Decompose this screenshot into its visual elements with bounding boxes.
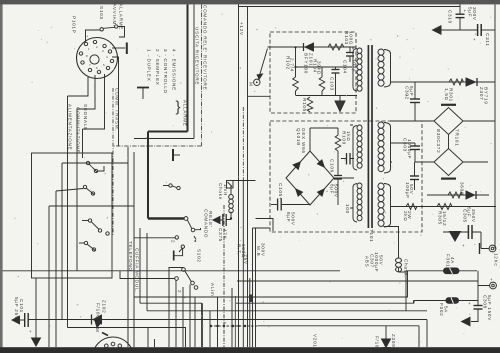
ground symbol bottom left (32, 338, 41, 346)
lower block inner top (258, 325, 419, 327)
capacitor C104 plate a (346, 52, 354, 54)
choke chassis feed from transformer (384, 227, 399, 259)
S102 jack arm (179, 249, 182, 252)
comb wire x183 (182, 287, 184, 347)
socket P101 pin 1 (84, 42, 87, 45)
diode Z308 cathode bar (475, 191, 477, 199)
svg-text:C106: C106 (330, 159, 335, 173)
thick alarm wire vertical top (187, 4, 189, 131)
svg-text:50V: 50V (379, 255, 384, 266)
junction dots row (210, 325, 246, 327)
S102 jack bar (173, 251, 175, 261)
nested wire a vertical (139, 228, 141, 303)
svg-text:2W: 2W (407, 211, 412, 219)
svg-text:+: + (464, 9, 467, 14)
ground arrow top right (433, 26, 442, 34)
bottom margin bar (0, 347, 500, 353)
antenna arrowhead (257, 74, 262, 79)
wire to terminal 1 (481, 232, 489, 249)
bus y303 right segment (236, 301, 414, 304)
top right rail vertical (459, 4, 461, 14)
svg-text:7: 7 (89, 63, 91, 67)
relay contact group 4 circle a (84, 241, 87, 244)
plus bar above TR101 (441, 104, 456, 106)
marker N above socket (95, 321, 102, 328)
socket P101 pin 10 (79, 52, 82, 55)
antenna bar T1 (126, 43, 128, 55)
wire left bus x56 (55, 191, 57, 347)
R109 stub (337, 128, 339, 135)
ground arrow in block stem (339, 96, 341, 102)
transformer secondary sec1 edge (384, 50, 391, 88)
choke bottom lead (399, 268, 407, 272)
capacitor C101 plate a (24, 313, 26, 327)
relay arm tick (194, 236, 196, 240)
S102 jack wire (175, 248, 183, 255)
svg-text:1: 1 (183, 296, 188, 299)
branch x195 down (194, 297, 196, 347)
transformer secondary winding section1 (378, 49, 384, 86)
capacitor C103 plate b (332, 72, 340, 74)
branch x217 down (217, 297, 219, 347)
relay contact group 1 stub b (98, 166, 104, 171)
wire left bus x49 (48, 206, 50, 347)
hv wire y82 (390, 81, 495, 83)
diode Z308 body (466, 191, 475, 199)
left margin bar (0, 0, 3, 353)
capacitor C311 plate a (477, 24, 479, 36)
diode Z102 body (93, 315, 102, 324)
C103 wires (335, 67, 337, 96)
terminal 1 inner (491, 247, 494, 250)
thin line2 corner to telefono box (134, 138, 194, 140)
junction dot choke (230, 217, 232, 219)
transformer secondary sec2 edge (384, 123, 391, 174)
switch S103 contact a (100, 28, 103, 31)
long bus y271 (3, 270, 340, 272)
wire alimentazione vertical (67, 96, 69, 328)
C310 wire down (459, 18, 461, 30)
svg-text:5µF: 5µF (409, 86, 414, 96)
svg-text:15/1Z: 15/1Z (442, 211, 447, 227)
bridge diode UR (317, 160, 324, 167)
choke wire bottom (230, 212, 232, 219)
switch alim feed wire (120, 271, 175, 279)
long wire y320 from C101 to lower box (28, 319, 427, 321)
svg-text:COMM. TRASM.: COMM. TRASM. (115, 88, 120, 131)
diode Z307 cathode bar (476, 78, 478, 86)
svg-text:2: 2 (171, 240, 176, 243)
fuse F302 body (446, 298, 459, 304)
socket V202 pin a (100, 349, 104, 353)
C308 wire to ground (471, 309, 478, 322)
svg-text:BFY100: BFY100 (304, 53, 309, 74)
antenna lead diagonal (259, 49, 268, 79)
svg-text:COMMUTAZIONE: COMMUTAZIONE (76, 107, 81, 153)
bus y121 left (390, 120, 434, 122)
wire fuse F302 feed (414, 301, 478, 304)
rectifier TR102 diamond (434, 149, 463, 176)
bus y311 (147, 310, 427, 312)
capacitor plate b S102 (225, 214, 227, 226)
svg-text:+: + (490, 277, 493, 282)
svg-text:2: 2 (96, 45, 98, 49)
svg-text:COMANDO RELE’ RICEVITORE: COMANDO RELE’ RICEVITORE (202, 5, 207, 90)
socket V202 pin c (111, 342, 115, 346)
transformer secondary sec3 edge (384, 184, 391, 228)
svg-text:R105: R105 (302, 98, 307, 112)
wire F302 to terminal (477, 286, 479, 301)
relay contact box (32, 153, 113, 278)
transformer primary winding section1 (357, 48, 362, 91)
C304 wires (414, 162, 416, 190)
socket lead stub b (154, 339, 156, 347)
top margin bar (0, 0, 500, 4)
bridge Q101 diamond (286, 151, 334, 205)
svg-text:-: - (469, 312, 471, 317)
wire group 2 feed (56, 189, 83, 192)
svg-text:6: 6 (96, 66, 98, 70)
center bus x243 lower (242, 180, 244, 347)
right edge bus x495 (494, 4, 496, 248)
wire cap to junction (226, 219, 231, 221)
C303 wire down (414, 150, 416, 163)
transformer primary winding section2 (357, 125, 362, 168)
wire between rectifiers (448, 135, 450, 149)
resistor R301 zigzag (449, 79, 464, 85)
telefono box line b (133, 152, 135, 347)
diode Z102 cathode bar (91, 315, 93, 325)
svg-text:5µF 25V: 5µF 25V (14, 297, 19, 320)
antenna terminal circle (254, 79, 260, 85)
svg-text:-: - (474, 242, 476, 247)
mb box top stub (253, 227, 271, 229)
svg-text:C307: C307 (369, 254, 374, 268)
svg-text:4 - EMISSIONE: 4 - EMISSIONE (172, 49, 177, 91)
mb box line b (255, 228, 257, 347)
svg-text:5µF: 5µF (467, 207, 472, 217)
wire bottom bridge (282, 204, 310, 206)
bus y297 (134, 271, 408, 297)
relay arm (187, 220, 192, 229)
transformer taps (350, 47, 392, 208)
resistor R303 zigzag (406, 204, 417, 210)
relay arm end wire (195, 228, 201, 230)
capacitor C308 plate a (474, 305, 483, 307)
svg-text:Z307: Z307 (479, 87, 484, 100)
C105 wire left (271, 204, 278, 206)
wire y195 (427, 194, 489, 196)
svg-text:TR101: TR101 (454, 129, 459, 147)
capacitor right pair plate a (346, 153, 348, 165)
wire gnd to C101 (20, 319, 25, 321)
thick alarm wire down (147, 132, 149, 219)
C104 wire b (349, 56, 351, 62)
key symbol T2 bar (137, 87, 149, 89)
rectifier TR101 diamond (434, 108, 463, 135)
socket V202 pin d (118, 344, 122, 348)
branch x210 down (209, 311, 211, 347)
svg-text:R103: R103 (344, 31, 349, 45)
wire y206 (390, 206, 496, 208)
transformer primary sec3 edge (353, 184, 357, 223)
capacitor C302 plate b (410, 102, 420, 104)
transformer core line a (367, 45, 369, 228)
svg-text:-75V: -75V (243, 252, 248, 265)
fuse F301 notch (450, 268, 453, 274)
transformer primary winding section3 (357, 183, 362, 221)
thick alarm wire corner (148, 131, 188, 133)
cap right wire (341, 158, 354, 160)
diode Z309 bar (382, 347, 391, 349)
ground lead from relay box (35, 278, 37, 338)
svg-text:1kΩ: 1kΩ (346, 131, 351, 142)
svg-text:Z102: Z102 (102, 300, 107, 313)
svg-text:USCITA RICEVITORE: USCITA RICEVITORE (194, 27, 199, 85)
terminal 1 outer (489, 245, 496, 252)
diode Z307 body (466, 78, 476, 86)
svg-text:S102: S102 (196, 249, 201, 263)
connector blob (249, 295, 252, 303)
wire y96 outside block (248, 95, 271, 97)
svg-text:50V: 50V (409, 184, 414, 195)
capacitor C311 plate b (480, 24, 482, 36)
svg-text:12Kc: 12Kc (494, 253, 499, 266)
dash-dot alarm boundary horizontal (113, 145, 202, 147)
transformer secondary winding section3 (378, 183, 384, 226)
wire y218 right (256, 219, 274, 232)
capacitor C302 plate a (410, 98, 420, 100)
junction dot b (294, 66, 296, 68)
lower block box outer top handled by y320 line, right edge (426, 320, 428, 348)
svg-text:ALLARME: ALLARME (118, 4, 123, 31)
C303 wire (414, 143, 416, 146)
bus y303 left segment (140, 302, 202, 304)
wire upper feed (62, 162, 128, 164)
svg-text:5: 5 (103, 63, 105, 67)
svg-text:SEGNALE: SEGNALE (83, 104, 88, 131)
svg-text:1mH: 1mH (223, 184, 228, 196)
svg-text:Chass.: Chass. (404, 259, 409, 278)
relay contact group 3 arm (91, 222, 99, 230)
ground arrow C306 (450, 232, 461, 242)
key symbol T2 stem (142, 88, 144, 100)
S102 feed contact (175, 236, 178, 239)
svg-text:+: + (462, 243, 465, 248)
socket P101 pin 5 (110, 59, 113, 62)
S102 jack contact (181, 245, 184, 248)
dash-dot boundary comm trasm (112, 88, 114, 235)
capacitor right pair plate b (349, 153, 351, 165)
svg-text:2,7/4: 2,7/4 (290, 58, 295, 72)
svg-text:3 - CONTROLLO: 3 - CONTROLLO (163, 49, 168, 94)
R104 wire stubs (321, 67, 323, 96)
R102 wire stubs (295, 67, 297, 96)
svg-text:C105+: C105+ (278, 183, 283, 200)
relay arm end circle (191, 228, 195, 232)
C104 wire (349, 47, 351, 53)
svg-text:M: M (249, 82, 254, 87)
capacitor C103 plate a (332, 69, 340, 71)
wire top node bridge (310, 128, 338, 151)
capacitor C306 plate b (471, 225, 473, 239)
svg-text:C103: C103 (330, 77, 335, 91)
socket P101 pin 8 (88, 68, 91, 71)
svg-text:F302: F302 (439, 303, 444, 316)
dashed block rectifier Q101 (270, 121, 422, 232)
connector block mark (228, 182, 233, 187)
relay arm tick dot (194, 240, 196, 242)
socket lead stub a (147, 328, 149, 348)
capacitor C310 plate b (456, 17, 465, 19)
socket P101 pin 3 (103, 44, 106, 47)
svg-text:1000µF: 1000µF (374, 252, 379, 272)
svg-text:3: 3 (102, 49, 104, 53)
svg-text:500V: 500V (290, 212, 295, 226)
terminal 2 inner (492, 284, 495, 287)
switch S103 arm (103, 27, 114, 28)
svg-text:RELE’: RELE’ (208, 211, 213, 228)
socket P101 pin 7 (97, 70, 100, 73)
capacitor C106 plate a (334, 175, 342, 177)
extra bus x235 (234, 296, 236, 347)
dashed block discriminator (270, 32, 356, 113)
tube socket V202 bottom arc (93, 337, 134, 353)
wire y180 stub (233, 180, 256, 182)
svg-text:350V: 350V (471, 209, 476, 223)
capacitor C303 plate a (410, 145, 420, 147)
socket V202 key tick (102, 333, 108, 336)
socket P101 pin 2 (93, 40, 96, 43)
svg-text:C310: C310 (448, 10, 453, 24)
wire fuse to terminal 2 (478, 271, 490, 286)
resistor R105 zigzag (307, 97, 313, 112)
thick relay feed wire (148, 217, 184, 219)
supply box left edge x247 (247, 7, 249, 348)
bus y281 (237, 280, 478, 282)
resistor R103 zigzag (328, 44, 344, 50)
svg-text:4A: 4A (450, 257, 455, 264)
extra bus x232 (231, 288, 233, 347)
choke chassis winding (396, 258, 402, 272)
diode Z101 body (305, 43, 314, 51)
relay contact group 1 circle a (86, 161, 89, 164)
bridge diode LL (296, 189, 303, 196)
C106 wire (337, 151, 339, 176)
svg-text:C375: C375 (218, 228, 223, 242)
relay contact group 1 stub (79, 162, 86, 164)
center bus x249 (249, 278, 251, 347)
capacitor plate near switch (172, 149, 174, 161)
mid contact arm (172, 186, 177, 188)
S102 feed wire (134, 237, 175, 239)
bridge diode LR (318, 189, 325, 196)
svg-text:1000µF: 1000µF (407, 139, 412, 159)
resistor R102 zigzag (293, 77, 299, 91)
wire y162 mid (415, 161, 434, 163)
svg-text:5µF 150V: 5µF 150V (487, 295, 492, 321)
wire y67 in block (296, 66, 353, 68)
resistor R109 zigzag (335, 135, 341, 151)
svg-text:+: + (405, 93, 408, 98)
tube socket P101 outer circle (77, 38, 118, 79)
resistor R104 zigzag (319, 77, 325, 91)
svg-text:B30C372: B30C372 (436, 129, 441, 153)
diode Z309 body (382, 339, 391, 348)
svg-text:TELEFONO: TELEFONO (128, 241, 133, 272)
mid contact stub (163, 185, 169, 187)
relay contact group 4 stub (79, 242, 84, 244)
svg-text:V201: V201 (313, 334, 318, 348)
svg-text:100Ω: 100Ω (348, 31, 353, 45)
relay coil hook after S103 (118, 27, 125, 38)
transformer secondary winding section2 (378, 122, 384, 172)
capacitor C304 plate a (410, 175, 419, 177)
transformer primary sec2 edge (353, 126, 357, 171)
capacitor C101 plate b (27, 313, 29, 327)
socket V202 pin b (105, 344, 109, 348)
svg-text:ABS: ABS (365, 256, 370, 267)
svg-text:8µF: 8µF (286, 212, 291, 222)
wire y47 in block (268, 46, 357, 48)
C302 wire down (414, 103, 416, 122)
center bus x238 (238, 4, 240, 347)
svg-text:F301: F301 (445, 254, 450, 267)
svg-text:Choke: Choke (218, 183, 223, 200)
wire y162 right (463, 161, 488, 163)
transformer primary sec1 edge (353, 49, 357, 92)
relay contact group 3 stub (82, 220, 88, 222)
resistor R305 zigzag (437, 204, 452, 210)
transformer core line b (371, 45, 373, 228)
svg-text:P101P: P101P (72, 16, 77, 34)
bridge diode UL (293, 162, 300, 170)
diode Z309 feed (385, 326, 387, 339)
svg-text:ALim: ALim (210, 283, 215, 296)
ground arrow C308 (462, 317, 471, 325)
svg-text:BY719: BY719 (484, 87, 489, 105)
wire gnd to cap (220, 219, 222, 221)
svg-text:5A: 5A (444, 306, 449, 313)
svg-text:300V: 300V (472, 7, 477, 21)
stub from plate (173, 154, 180, 156)
relay contact group 2 circle b (91, 192, 94, 195)
wire y143 (390, 142, 415, 144)
svg-text:T101: T101 (369, 229, 374, 242)
svg-text:F/100: F/100 (96, 303, 101, 319)
capacitor C303 plate b (410, 149, 420, 151)
dash-dot alarm boundary vertical (201, 4, 203, 146)
switch S103 contact b (115, 25, 118, 28)
relay arm contact circle (184, 217, 188, 221)
wire telefono to socket area (68, 328, 186, 348)
svg-text:1 - DUPLEX: 1 - DUPLEX (147, 49, 152, 82)
rail +12V top (239, 6, 461, 8)
relay contact group 2 arm (86, 188, 94, 194)
svg-text:+: + (468, 301, 471, 306)
svg-text:R109: R109 (341, 131, 346, 145)
C302 wire from y82 (414, 82, 416, 99)
fuse F302 notch (451, 298, 454, 304)
svg-text:300V: 300V (261, 243, 266, 257)
tube socket P101 center hole (90, 55, 99, 64)
switch alim contact c (191, 281, 195, 285)
wire segnale vertical (82, 129, 84, 158)
fuse F301 body (444, 268, 460, 274)
wire socket pin7 down (77, 75, 95, 109)
svg-text:47K: 47K (223, 229, 228, 240)
svg-text:100: 100 (345, 204, 350, 214)
